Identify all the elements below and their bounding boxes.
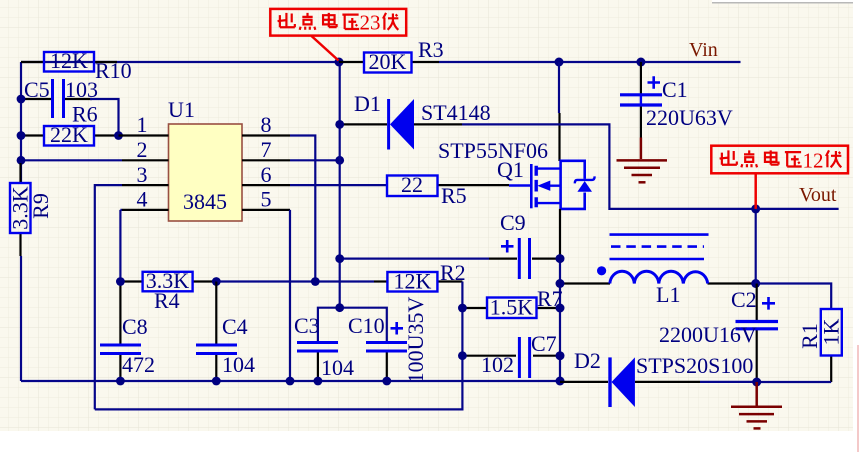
- U1 pin 5: [242, 187, 290, 212]
- junction dot C7 left: [458, 351, 467, 360]
- ground output: [731, 382, 782, 428]
- svg-text:R6: R6: [72, 102, 98, 127]
- U1 pin 6: [242, 162, 290, 187]
- resistor R1: [797, 308, 843, 382]
- wire left rail: [20, 62, 22, 183]
- resistor R3: [339, 37, 444, 74]
- inductor L1: [560, 271, 756, 307]
- svg-text:R10: R10: [95, 58, 132, 83]
- svg-text:12K: 12K: [393, 269, 431, 294]
- svg-text:8: 8: [261, 112, 272, 137]
- wire C3 C10 top link: [318, 308, 387, 341]
- svg-text:1K: 1K: [818, 318, 843, 345]
- callout 23V annotation: [270, 9, 406, 61]
- junction dot R7 right: [556, 304, 565, 313]
- wire pin7 to node B: [290, 159, 340, 161]
- svg-text:R3: R3: [418, 37, 444, 62]
- U1 pin 7: [242, 137, 290, 162]
- svg-text:R5: R5: [441, 183, 467, 208]
- junction dot R6 left: [17, 131, 26, 140]
- svg-text:20K: 20K: [369, 49, 407, 74]
- svg-text:104: 104: [222, 352, 255, 377]
- junction dot gnd C3: [314, 377, 323, 386]
- svg-text:3845: 3845: [183, 189, 227, 214]
- U1 pin 4: [122, 187, 169, 212]
- wire pin5 drop: [289, 210, 291, 381]
- capacitor C8: [100, 314, 155, 381]
- junction dot Vin C1: [636, 58, 645, 67]
- U1 pin 8: [242, 112, 290, 137]
- callout 12V annotation: [711, 146, 848, 209]
- svg-text:2200U16V: 2200U16V: [659, 322, 757, 347]
- junction dot gnd C10: [382, 377, 391, 386]
- svg-text:7: 7: [261, 137, 272, 162]
- L1 phase dot: [597, 266, 606, 275]
- svg-text:4: 4: [137, 187, 148, 212]
- svg-text:ST4148: ST4148: [421, 100, 491, 125]
- junction dot C7 right: [556, 351, 565, 360]
- transformer core lines: [610, 235, 709, 259]
- svg-text:102: 102: [481, 352, 514, 377]
- svg-text:U1: U1: [168, 97, 195, 122]
- resistor R10: [21, 48, 132, 83]
- net label ST4148: [421, 100, 491, 125]
- op-amp U1: [168, 97, 242, 221]
- wire pin8 to R2 row: [290, 136, 315, 283]
- wire gnd bottom rail: [21, 380, 560, 382]
- capacitor C1: [620, 62, 733, 138]
- capacitor C5: [21, 77, 98, 118]
- junction dot D1 node B: [335, 120, 344, 129]
- wire R1 bottom to output gnd: [757, 381, 832, 383]
- svg-text:1.5K: 1.5K: [490, 295, 534, 320]
- junction dot C5 left: [17, 95, 26, 104]
- svg-text:3: 3: [137, 162, 148, 187]
- svg-text:1: 1: [137, 112, 148, 137]
- U1 pin 3: [122, 162, 169, 187]
- junction dot C9 left node B: [335, 254, 344, 263]
- svg-text:R4: R4: [154, 288, 180, 313]
- svg-text:6: 6: [261, 162, 272, 187]
- svg-text:C3: C3: [294, 313, 320, 338]
- wire R2 riser to sense rail: [95, 282, 463, 410]
- svg-text:R9: R9: [28, 193, 53, 219]
- wire C5 to R6 row: [90, 99, 119, 136]
- junction dot L1 right Vout column: [751, 279, 760, 288]
- svg-text:C7: C7: [531, 331, 557, 356]
- resistor R2: [374, 260, 466, 294]
- diode D1: [340, 91, 462, 150]
- svg-text:12K: 12K: [50, 48, 88, 73]
- resistor R7: [462, 286, 562, 320]
- resistor R4: [120, 268, 216, 313]
- svg-text:C4: C4: [222, 314, 248, 339]
- junction dot C9 right source column: [556, 254, 565, 263]
- svg-text:R1: R1: [797, 323, 822, 349]
- wire pin4 column: [120, 210, 122, 344]
- wire drain column: [558, 62, 561, 161]
- resistor R9: [7, 163, 53, 256]
- junction dot R4 left: [116, 277, 125, 286]
- capacitor C10: [348, 297, 428, 384]
- junction dot gnd C8: [116, 377, 125, 386]
- U1 pin 1: [119, 112, 169, 137]
- capacitor C2: [659, 284, 778, 383]
- junction dot source column gnd rail: [556, 377, 565, 386]
- junction dot node B bottom: [335, 303, 344, 312]
- junction dot pin7 node B: [335, 156, 344, 165]
- transistor Q1: [438, 138, 595, 209]
- wire Vin row: [439, 61, 741, 63]
- wire Vout stub right: [756, 208, 839, 210]
- wire R9 bottom to gnd rail: [20, 256, 22, 381]
- svg-text:Q1: Q1: [497, 157, 524, 182]
- wire pin2 row: [21, 159, 122, 161]
- svg-text:D1: D1: [354, 91, 381, 116]
- junction dot gnd C4: [212, 377, 221, 386]
- resistor R5: [387, 172, 509, 208]
- svg-text:C10: C10: [348, 313, 385, 338]
- U1 pin 2: [122, 137, 169, 162]
- junction dot pin8 wire end: [311, 277, 320, 286]
- svg-text:2: 2: [137, 137, 148, 162]
- svg-text:STP55NF06: STP55NF06: [438, 138, 548, 163]
- wire pin6 row to R5: [290, 184, 387, 186]
- svg-text:472: 472: [122, 352, 155, 377]
- svg-text:12: 12: [803, 148, 824, 172]
- svg-text:C2: C2: [731, 287, 757, 312]
- node Vin label: [689, 39, 718, 61]
- junction dot R6 right / pin1 node: [114, 131, 123, 140]
- junction dot gnd pin5: [286, 377, 295, 386]
- junction dot node B top 23V: [335, 58, 344, 67]
- capacitor C9: [340, 210, 559, 279]
- diode D2: [560, 348, 757, 407]
- wire L1 row to R1: [756, 284, 832, 309]
- svg-text:Vout: Vout: [799, 184, 837, 206]
- svg-text:R2: R2: [440, 260, 466, 285]
- junction dot pin2 left rail: [17, 156, 26, 165]
- capacitor C4: [196, 282, 255, 382]
- junction dot Vout node: [751, 204, 760, 213]
- svg-text:C8: C8: [122, 314, 148, 339]
- svg-text:L1: L1: [656, 282, 680, 307]
- wire Vout column: [755, 209, 757, 284]
- svg-text:22: 22: [401, 172, 423, 197]
- svg-text:104: 104: [321, 355, 354, 380]
- svg-text:100U35V: 100U35V: [403, 297, 428, 384]
- wire pin3 riser: [95, 185, 122, 409]
- svg-text:C1: C1: [662, 77, 688, 102]
- net label STPS20S100: [636, 353, 753, 378]
- svg-text:C5: C5: [24, 77, 50, 102]
- svg-text:220U63V: 220U63V: [646, 105, 733, 130]
- wire top row 23V net: [21, 61, 339, 63]
- resistor R6: [21, 102, 118, 148]
- junction dot L1 left source column: [556, 279, 565, 288]
- junction dot R4 right: [212, 277, 221, 286]
- svg-text:5: 5: [261, 187, 272, 212]
- svg-text:23: 23: [360, 11, 381, 35]
- capacitor C7: [462, 331, 560, 378]
- wire node B vertical: [339, 62, 341, 308]
- svg-text:STPS20S100: STPS20S100: [636, 353, 753, 378]
- junction dot R7 left: [458, 304, 467, 313]
- capacitor C3: [294, 313, 354, 381]
- wire R4 to R2 row: [216, 280, 374, 282]
- junction dot Vin drain column: [555, 58, 564, 67]
- svg-text:C9: C9: [500, 210, 526, 235]
- node Vout label: [799, 184, 837, 206]
- svg-text:Vin: Vin: [689, 39, 718, 61]
- wire Q1 source column: [559, 209, 561, 382]
- ground C1: [617, 138, 668, 183]
- svg-text:D2: D2: [574, 348, 601, 373]
- wire D1 to Q1 drain-source loop: [462, 124, 756, 208]
- junction dot output gnd node: [752, 378, 761, 387]
